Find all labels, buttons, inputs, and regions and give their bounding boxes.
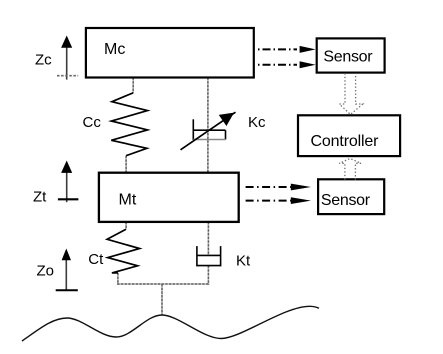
svg-text:Kt: Kt [236, 253, 251, 270]
svg-text:Mt: Mt [119, 192, 137, 209]
svg-text:Zt: Zt [33, 189, 47, 206]
svg-text:Mc: Mc [104, 41, 125, 58]
svg-text:Cc: Cc [83, 114, 102, 131]
svg-text:Ct: Ct [88, 251, 104, 268]
svg-text:Zo: Zo [37, 263, 55, 280]
svg-text:Controller: Controller [311, 133, 380, 150]
svg-text:Zc: Zc [35, 52, 52, 69]
svg-text:Sensor: Sensor [321, 192, 371, 209]
svg-text:Kc: Kc [248, 114, 266, 131]
svg-text:Sensor: Sensor [323, 48, 373, 65]
